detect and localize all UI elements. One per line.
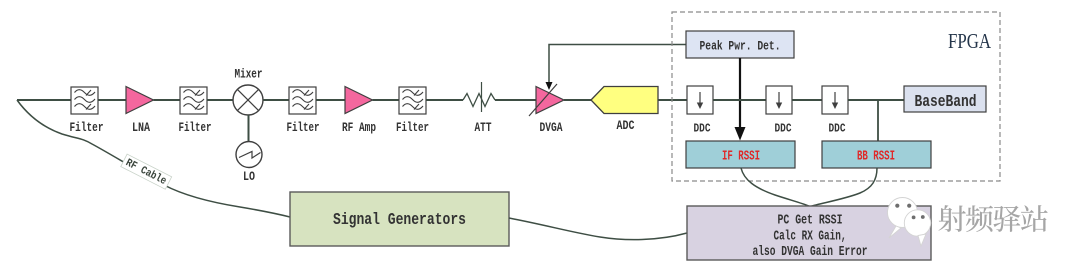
wire: feedback from Peak Pwr. Det. to DVGA — [546, 45, 687, 91]
svg-text:LNA: LNA — [132, 120, 150, 135]
block Signal Generators — [290, 192, 509, 246]
block Peak Pwr. Det. — [686, 31, 794, 58]
brand text: 射频驿站 — [938, 205, 1047, 232]
wire: antenna input line — [17, 99, 71, 101]
label: RF Cable — [121, 154, 172, 189]
wire — [98, 99, 126, 101]
ADC — [591, 87, 658, 134]
wire: IF RSSI to PC box — [741, 168, 810, 207]
block BaseBand — [904, 86, 986, 112]
svg-text:Filter: Filter — [70, 120, 104, 135]
svg-text:IF RSSI: IF RSSI — [722, 149, 760, 165]
wire — [316, 99, 345, 101]
svg-text:also DVGA Gain Error: also DVGA Gain Error — [753, 244, 868, 260]
DDC 3 — [822, 86, 848, 136]
DDC 1 — [687, 86, 713, 136]
filter FL3 — [287, 87, 320, 135]
wechat logo — [888, 198, 931, 247]
svg-text:DDC: DDC — [775, 122, 792, 136]
wire: Peak Pwr. Det. to IF RSSI arrow — [735, 58, 746, 141]
wire — [373, 99, 400, 101]
svg-text:DDC: DDC — [829, 122, 846, 136]
svg-text:FPGA: FPGA — [948, 29, 992, 53]
wire: BB RSSI to PC box — [810, 168, 877, 207]
wire — [263, 99, 289, 101]
FPGA dashed box — [672, 12, 1000, 181]
filter FL1 — [70, 87, 104, 135]
svg-text:DDC: DDC — [694, 122, 711, 136]
svg-text:RF Amp: RF Amp — [342, 120, 376, 135]
svg-text:BaseBand: BaseBand — [915, 93, 977, 112]
svg-text:Calc RX Gain,: Calc RX Gain, — [774, 229, 847, 245]
svg-text:ADC: ADC — [617, 118, 635, 133]
amplifier DVGA — [529, 84, 564, 135]
mixer — [233, 67, 263, 116]
svg-text:Mixer: Mixer — [235, 67, 263, 82]
wire — [154, 99, 181, 101]
DDC 2 — [766, 86, 792, 136]
svg-text:Filter: Filter — [287, 120, 320, 135]
svg-text:Filter: Filter — [396, 120, 429, 135]
wire — [792, 99, 822, 101]
oscillator LO — [236, 142, 262, 185]
svg-text:LO: LO — [243, 169, 255, 184]
wire — [207, 99, 233, 101]
svg-text:PC Get RSSI: PC Get RSSI — [778, 213, 843, 229]
wire: RF cable curve to Signal Generators — [17, 100, 290, 217]
wire: riser to BB RSSI — [877, 100, 879, 141]
wire — [564, 99, 592, 101]
attenuator ATT — [463, 82, 495, 135]
svg-text:BB RSSI: BB RSSI — [857, 149, 895, 165]
svg-text:Signal Generators: Signal Generators — [333, 211, 466, 230]
svg-text:Filter: Filter — [179, 120, 212, 135]
wire: Signal Generators to PC box — [509, 218, 687, 240]
wire — [495, 99, 536, 101]
wire — [848, 99, 904, 101]
filter FL2 — [179, 87, 212, 135]
amplifier LNA — [126, 87, 154, 136]
amplifier RF Amp — [342, 87, 376, 136]
wire: mixer to LO — [248, 115, 250, 142]
svg-text:ATT: ATT — [475, 120, 492, 135]
filter FL4 — [396, 87, 429, 135]
wire — [658, 99, 687, 101]
wire — [426, 99, 463, 101]
svg-text:Peak Pwr. Det.: Peak Pwr. Det. — [700, 39, 781, 54]
svg-text:DVGA: DVGA — [540, 120, 563, 135]
wire — [713, 99, 766, 101]
block PC Get RSSI — [687, 206, 931, 260]
block IF RSSI — [686, 141, 795, 168]
block BB RSSI — [822, 141, 931, 168]
